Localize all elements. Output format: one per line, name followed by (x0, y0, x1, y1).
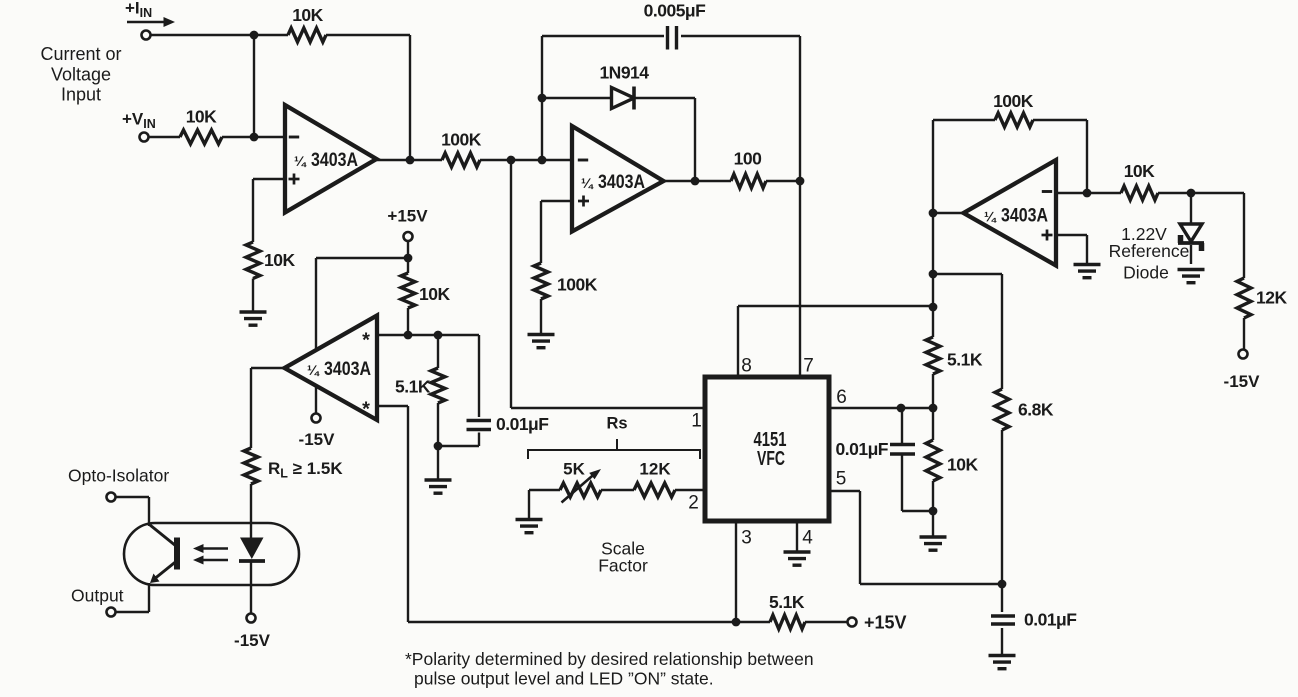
ground pot (516, 520, 543, 533)
wire node to pin1 vertical (510, 160, 512, 408)
svg-text:Opto-Isolator: Opto-Isolator (68, 466, 169, 486)
wire U3 upper input row (377, 334, 479, 336)
wire C3 to R14 node (902, 510, 933, 512)
svg-text:Voltage: Voltage (51, 65, 111, 85)
wire U1 plus lead (253, 178, 285, 180)
opto collector line (150, 525, 176, 546)
wire 10K R1 to feedback node (326, 34, 410, 36)
terminal output (107, 608, 116, 617)
svg-text:-15V: -15V (1224, 372, 1261, 391)
wire cap C2 bottom (478, 433, 480, 447)
resistor R2 10K (180, 130, 222, 144)
terminal +Iin (142, 31, 151, 40)
svg-text:-15V: -15V (299, 430, 336, 449)
junction node Vin/R2 (250, 133, 259, 142)
resistor R9 RL (244, 448, 258, 484)
junction node 6.8K tap (929, 270, 938, 279)
opto-isolator package outline (124, 523, 299, 585)
junction node pin8 join (929, 303, 938, 312)
wire R2 to U1 minus (222, 136, 285, 138)
svg-text:0.005μF: 0.005μF (644, 1, 706, 21)
svg-text:3403A: 3403A (324, 359, 371, 380)
wire +Vin to R2 (149, 136, 181, 138)
svg-text:RL ≥ 1.5K: RL ≥ 1.5K (268, 459, 343, 481)
svg-text:5.1K: 5.1K (947, 350, 983, 370)
wire C3 bottom (901, 455, 903, 511)
wire U3 supply feedback horizontal (316, 257, 408, 259)
ground R8/C2 (425, 480, 452, 493)
wire 12K top vertical (1243, 193, 1245, 278)
wire cap C1 top left (542, 35, 664, 37)
svg-text:*: * (362, 399, 370, 421)
wire R3 to ground (252, 279, 254, 313)
wire pin8 vertical (737, 306, 739, 377)
wire collector down (148, 497, 150, 526)
svg-text:3403A: 3403A (598, 172, 645, 193)
svg-text:0.01μF: 0.01μF (836, 439, 889, 459)
svg-text:¼: ¼ (294, 153, 307, 169)
resistor R1 10K (288, 28, 326, 42)
wire R13 to R14 (932, 374, 934, 440)
wire zener top (1190, 193, 1192, 225)
svg-text:100K: 100K (441, 130, 482, 150)
junction node R14 bottom (929, 507, 938, 516)
wire R7 to input row (407, 308, 409, 335)
wire node to R8 (437, 335, 439, 368)
junction node Iin/R1 (250, 31, 259, 40)
resistor R13 5.1K (926, 337, 940, 374)
svg-text:Reference: Reference (1109, 241, 1190, 261)
junction node zener tap (1187, 189, 1196, 198)
wire pin7 vertical (799, 36, 801, 377)
wire 10K to 12K node (1158, 192, 1244, 194)
wire C3 top (901, 408, 903, 444)
opto light arrow 2 (202, 559, 228, 562)
wire U2 out to R6 (663, 180, 731, 182)
svg-text:¼: ¼ (581, 175, 594, 191)
junction node U4 out (929, 209, 938, 218)
svg-text:¼: ¼ (307, 362, 320, 378)
resistor R3 10K (246, 242, 260, 279)
wire R12 to +15V terminal (805, 621, 848, 623)
wire pin4 vertical (796, 521, 798, 552)
wire feedback vertical U1 (409, 35, 411, 160)
wire opto collector lead (116, 496, 150, 498)
junction node pin6/C3 (897, 404, 906, 413)
svg-text:*Polarity determined by desire: *Polarity determined by desired relation… (405, 649, 814, 669)
wire U4 feedback left (933, 119, 995, 121)
junction node +15V/R7 (404, 254, 413, 263)
capacitor C4 0.01uF (991, 614, 1015, 618)
wire pin1 horizontal (511, 407, 705, 409)
resistor R17 10K (1121, 186, 1158, 200)
terminal -15V right (1239, 350, 1248, 359)
svg-text:6: 6 (836, 387, 847, 408)
ground R14 (920, 537, 947, 550)
wire pin6 row (829, 407, 933, 409)
svg-text:3403A: 3403A (311, 150, 358, 171)
wire RL to LED (250, 484, 252, 538)
resistor R8 5.1K (431, 368, 445, 403)
wire +Iin row (151, 34, 289, 36)
wire U1 output to 100K (376, 159, 442, 161)
svg-text:10K: 10K (419, 284, 450, 304)
svg-text:10K: 10K (186, 107, 217, 127)
svg-text:Current or: Current or (40, 44, 121, 64)
diode D1 1N914 (612, 88, 635, 109)
svg-text:Rs: Rs (606, 415, 627, 433)
wire cap C1 top right (681, 35, 800, 37)
svg-text:Factor: Factor (598, 556, 648, 576)
svg-text:-15V: -15V (234, 631, 271, 650)
terminal +15V top (404, 232, 413, 241)
wire zener to ground (1190, 245, 1192, 264)
svg-text:7: 7 (803, 356, 814, 377)
wire pot left lead (529, 489, 560, 491)
wire U4 output lead (933, 212, 964, 214)
svg-text:3403A: 3403A (1001, 206, 1048, 227)
op-amp U3 (285, 316, 378, 421)
wire bottom rail (408, 621, 736, 623)
svg-text:+15V: +15V (864, 613, 907, 633)
wire pot to 12K (601, 489, 634, 491)
op-amp U4 plus (1042, 234, 1053, 237)
svg-text:Input: Input (61, 85, 101, 105)
wire diode D1 anode (542, 97, 612, 99)
junction node U1 out (406, 156, 415, 165)
svg-text:100: 100 (734, 149, 762, 169)
wire U4 minus to 10K (1056, 192, 1121, 194)
svg-text:12K: 12K (1256, 288, 1287, 308)
junction node pin1 (507, 156, 516, 165)
op-amp U1 (285, 105, 377, 213)
wire feedback down to minus (1086, 120, 1088, 193)
svg-text:8: 8 (741, 356, 752, 377)
wire pot to ground (528, 490, 530, 520)
resistor R5 100K (534, 263, 548, 299)
wire node to C4 (1001, 584, 1003, 612)
wire R14 to ground (932, 481, 934, 538)
op-amp U2 minus (578, 159, 588, 162)
wire U3 output lead (251, 367, 285, 369)
wire U2 plus down (540, 201, 542, 263)
svg-text:0.01μF: 0.01μF (496, 414, 549, 434)
svg-text:pulse output level and LED ”ON: pulse output level and LED ”ON” state. (414, 669, 714, 689)
svg-text:5.1K: 5.1K (395, 377, 431, 397)
wire pin5 lead (829, 490, 860, 492)
wire U3 supply vertical (315, 258, 317, 351)
wire +15V terminal down (407, 241, 409, 273)
capacitor C2 0.01uF (467, 419, 492, 422)
potentiometer R10 5K (560, 483, 601, 497)
wire diode D1 cathode (634, 97, 695, 99)
terminal -15V U3 (312, 414, 321, 423)
wire pin5 horizontal (860, 583, 1002, 585)
svg-text:¼: ¼ (984, 209, 997, 225)
svg-text:5: 5 (836, 469, 847, 490)
opto emitter line (153, 562, 176, 581)
capacitor C1 0.005uF (666, 26, 669, 50)
resistor R6 100 (731, 174, 766, 188)
ground C4 (989, 656, 1016, 669)
wire C4 to ground (1001, 628, 1003, 655)
svg-text:10K: 10K (292, 5, 323, 25)
junction node fb/minus (1083, 189, 1092, 198)
wire pin3 vertical (735, 521, 737, 622)
terminal opto collector (107, 493, 116, 502)
wire emitter up (148, 583, 150, 612)
svg-text:VFC: VFC (757, 447, 785, 470)
svg-text:100K: 100K (993, 91, 1034, 111)
svg-text:100K: 100K (557, 275, 598, 295)
opto phototransistor bar (174, 538, 180, 570)
op-amp U2 plus (578, 200, 589, 203)
svg-text:Output: Output (71, 586, 124, 606)
junction node R7/input (404, 331, 413, 340)
wire 6.8K bottom vertical (1001, 430, 1003, 584)
wire opto emitter lead (116, 611, 150, 613)
wire 12K to -15V terminal (1243, 318, 1245, 350)
ground U1 plus (240, 312, 267, 325)
junction node R8 top (434, 331, 443, 340)
terminal +15V bottom (848, 618, 857, 627)
wire pin8 horizontal (738, 305, 933, 307)
bracket Rs (528, 450, 700, 459)
resistor R7 10K (401, 273, 415, 308)
resistor R18 12K (1237, 278, 1251, 318)
wire pin5 vertical (859, 491, 861, 584)
op-amp U1 minus (289, 136, 299, 139)
junction node R8/C2 bottom (434, 442, 443, 451)
wire R5 to ground (540, 299, 542, 335)
arrow Iin (127, 21, 166, 24)
zener D2 1.22V reference (1180, 224, 1202, 242)
wire R6 to node (766, 180, 800, 182)
wire D1 down to output (694, 98, 696, 181)
wire U4 plus lead (1056, 234, 1087, 236)
junction node pin5/C4 (998, 580, 1007, 589)
junction node U2 out (691, 177, 700, 186)
terminal -15V LED (247, 614, 256, 623)
op-amp U4 (964, 160, 1057, 266)
wire node to 6.8K horizontal (933, 273, 1002, 275)
wire Iin to Vin junction vertical (253, 35, 255, 137)
svg-text:1: 1 (691, 411, 702, 432)
op-amp U1 plus (289, 178, 300, 181)
IC 4151 VFC box (705, 377, 829, 521)
wire U4 plus to ground (1086, 235, 1088, 265)
ground pin4 (784, 552, 811, 565)
capacitor C3 0.01uF (890, 443, 915, 446)
ground U2 plus (528, 335, 555, 348)
opto LED (240, 538, 264, 560)
resistor R16 100K (995, 113, 1033, 127)
wire U3 lower input vertical (407, 406, 409, 622)
wire rail to R12 (736, 621, 770, 623)
wire mid vertical R13 top (932, 120, 934, 337)
junction node pin3/rail (732, 618, 741, 627)
wire LED cathode to -15V (250, 561, 252, 614)
junction node pin6/R13 (929, 404, 938, 413)
svg-text:+15V: +15V (387, 207, 428, 226)
opto light arrow 1 (202, 547, 228, 550)
resistor R15 6.8K (995, 389, 1009, 430)
svg-text:6.8K: 6.8K (1018, 400, 1054, 420)
resistor R14 10K (926, 440, 940, 481)
svg-text:10K: 10K (947, 455, 978, 475)
resistor R4 100K (442, 153, 480, 167)
ground zener (1178, 270, 1205, 283)
junction node D1 anode (538, 94, 547, 103)
svg-text:Diode: Diode (1123, 263, 1169, 283)
wire U1 plus down (252, 179, 254, 242)
svg-text:3: 3 (741, 528, 752, 549)
wire U3 lower input lead (377, 405, 408, 407)
svg-text:1N914: 1N914 (599, 63, 649, 83)
wire feedback left vertical U2 (541, 36, 543, 160)
wire R8 to ground node (437, 403, 439, 480)
resistor R12 5.1K (770, 615, 805, 629)
svg-text:2: 2 (688, 493, 699, 514)
wire U2 plus lead (541, 200, 572, 202)
wire U4 feedback right (1033, 119, 1087, 121)
svg-text:5.1K: 5.1K (769, 592, 805, 612)
junction node U2 minus (538, 156, 547, 165)
svg-text:5K: 5K (563, 460, 585, 479)
op-amp U4 minus (1042, 190, 1052, 193)
junction node pin7 (796, 177, 805, 186)
resistor R11 12K (634, 483, 675, 497)
wire output down to RL (250, 368, 252, 448)
wire C2 bottom to R8 node (438, 445, 479, 447)
svg-text:10K: 10K (264, 250, 295, 270)
wire 100K to U2 minus (480, 159, 572, 161)
terminal +Vin (140, 133, 149, 142)
wire to cap C2 top (478, 335, 480, 417)
op-amp U2 (572, 126, 664, 232)
svg-text:0.01μF: 0.01μF (1024, 610, 1077, 630)
svg-text:4: 4 (802, 528, 813, 549)
svg-text:*: * (362, 330, 370, 352)
wire U3 minus supply (315, 385, 317, 414)
ground U4 plus (1074, 265, 1101, 278)
svg-text:10K: 10K (1124, 161, 1155, 181)
svg-text:12K: 12K (639, 460, 671, 479)
wire 6.8K top vertical (1001, 274, 1003, 389)
wire 12K to pin2 (675, 489, 705, 491)
